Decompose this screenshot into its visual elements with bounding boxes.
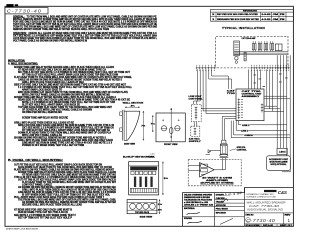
- width dimension: [125, 107, 140, 108]
- wires control unit to conduit: [222, 116, 236, 140]
- svg-text:ASSEMBLY: ASSEMBLY: [242, 95, 261, 98]
- svg-text:SUPPLY: SUPPLY: [189, 141, 202, 143]
- remote control station (optional): [267, 156, 291, 171]
- svg-text:DWG NO: DWG NO: [246, 214, 255, 216]
- wire tag labels: [254, 74, 257, 77]
- file stamp bars top-left: [6, 4, 13, 7]
- svg-text:SCALE NONE: SCALE NONE: [246, 224, 261, 227]
- svg-text:ON DWG PER INSTALL REMOVE MO: ON DWG PER INSTALL REMOVE MO: [22, 111, 62, 114]
- svg-text:CAT 7230-40 AMP: CAT 7230-40 AMP: [242, 37, 257, 40]
- input network R4: [201, 169, 208, 172]
- svg-text:PROJ ENGR: PROJ ENGR: [216, 209, 229, 211]
- op-amp U1: [200, 163, 215, 177]
- wire loop COMMON: [234, 121, 290, 135]
- wires control unit to riser: [264, 105, 277, 107]
- relay bank K1-K6: [252, 43, 254, 50]
- mounting frame front view: [129, 162, 159, 195]
- svg-text:POWER IS OFF WHEN DONE TEST FU: POWER IS OFF WHEN DONE TEST FULL SET UP …: [22, 145, 84, 147]
- wall lines: [121, 110, 123, 141]
- svg-text:4-2-82: 4-2-82: [262, 18, 272, 21]
- mounting frame bottom view: [127, 200, 157, 214]
- wires between panels: [193, 122, 195, 127]
- svg-text:DATE 6-4-81: DATE 6-4-81: [263, 224, 273, 227]
- 120 VAC supply panel (dashed): [191, 126, 200, 136]
- resistor R1: [244, 52, 246, 61]
- drawing number box C-7730-40: [5, 8, 48, 14]
- svg-text:CAT. 7730-40: CAT. 7730-40: [249, 204, 280, 208]
- svg-text:SHEET 1 OF 1: SHEET 1 OF 1: [280, 225, 292, 227]
- dashed cabinet bottom edge: [217, 67, 250, 69]
- height dimension: [143, 111, 144, 140]
- svg-text:MATERIAL: MATERIAL: [184, 207, 196, 210]
- riser wires to J-box: [276, 55, 278, 148]
- alignment cross left: [162, 119, 164, 121]
- input network R3: [201, 164, 208, 167]
- output wires to attenuator: [214, 158, 225, 170]
- svg-text:APART SNAP LOCK BACK EDGE: APART SNAP LOCK BACK EDGE: [6, 228, 39, 231]
- svg-text:6-9-83: 6-9-83: [262, 14, 272, 16]
- svg-text:JM: JM: [273, 14, 279, 16]
- svg-text:LINE 1: LINE 1: [241, 131, 249, 133]
- front view height dimension: [152, 115, 153, 132]
- svg-text:FRONT VIEW: FRONT VIEW: [164, 144, 178, 146]
- svg-text:5¾: 5¾: [164, 177, 168, 180]
- speaker housing profile: [124, 111, 140, 140]
- potentiometer R2: [210, 150, 220, 152]
- svg-text:COMMON: COMMON: [244, 135, 253, 137]
- junction box J1: [277, 148, 287, 154]
- svg-text:TOP END FACE: TOP END FACE: [135, 211, 150, 214]
- terminal strip TB1: [196, 67, 217, 69]
- screw hole left: [161, 126, 166, 131]
- svg-text:SIDE VIEW: SIDE VIEW: [140, 217, 153, 219]
- svg-text:VOLT PANEL CABLE AS SHOWN ON D: VOLT PANEL CABLE AS SHOWN ON DWG PER INS…: [13, 39, 87, 42]
- svg-text:CONTROL: CONTROL: [237, 149, 248, 151]
- field wires to low volt panel: [194, 69, 198, 104]
- screw hole right: [175, 126, 180, 131]
- svg-text:REMOVE MOUNT SCREW TONE AMP RE: REMOVE MOUNT SCREW TONE AMP RELAY NOTED …: [13, 28, 109, 31]
- svg-text:APPROVED: APPROVED: [216, 204, 227, 207]
- svg-text:FINISH: FINISH: [184, 218, 193, 220]
- svg-text:CHECKED: CHECKED: [216, 198, 226, 200]
- svg-text:NOTE) OPTIONAL: NOTE) OPTIONAL: [271, 163, 288, 166]
- svg-text:TRACED: TRACED: [216, 200, 225, 203]
- svg-text:SECURE GRILL INTO PLACE THEN C: SECURE GRILL INTO PLACE THEN CHECK ALL L…: [22, 204, 82, 207]
- wires TB2 to control unit: [248, 69, 250, 89]
- terminal strip TB2: [251, 67, 291, 69]
- svg-text:C&S: C&S: [278, 190, 288, 195]
- mounting tab lower: [120, 128, 123, 132]
- svg-text:SCREW TONE AMP RELAY NOTED SEC: SCREW TONE AMP RELAY NOTED SECURE: [22, 116, 68, 119]
- alignment cross right: [178, 119, 180, 121]
- svg-text:1-3/4: 1-3/4: [150, 154, 155, 156]
- revision history table: [211, 9, 294, 21]
- svg-text:REV PER ECN 2491 DWG RELOCATED: REV PER ECN 2491 DWG RELOCATED: [217, 13, 259, 16]
- svg-text:BLOW-UP VIEW MOUNTING: BLOW-UP VIEW MOUNTING: [123, 156, 154, 158]
- svg-text:SIDE VIEW: SIDE VIEW: [124, 143, 135, 145]
- mounting tab upper: [120, 112, 123, 116]
- svg-text:NORWALK CONNECTICUT USA: NORWALK CONNECTICUT USA: [247, 196, 277, 199]
- svg-text:J-BOX: J-BOX: [279, 151, 286, 153]
- svg-text:WALL SECTION: WALL SECTION: [123, 102, 144, 105]
- wire loop LINE 2: [239, 121, 287, 125]
- svg-text:REVISIONS: REVISIONS: [243, 10, 258, 12]
- svg-text:EDWARDS COMPANY INC.: EDWARDS COMPANY INC.: [247, 193, 276, 196]
- internal bus wiring: [234, 51, 288, 53]
- svg-text:TYPICAL INSTALLATION: TYPICAL INSTALLATION: [222, 26, 265, 30]
- wire loop LINE 1: [236, 121, 287, 131]
- speaker attenuator: [222, 140, 226, 143]
- svg-text:4¾: 4¾: [131, 104, 135, 107]
- svg-text:1¾: 1¾: [158, 203, 163, 206]
- power supply module PS1: [275, 44, 282, 51]
- svg-text:JM: JM: [273, 19, 279, 21]
- svg-text:CONT PANEL: CONT PANEL: [189, 98, 204, 101]
- wire loop shield: [231, 121, 290, 138]
- bottom view dimension: [159, 200, 160, 214]
- transformer T1: [234, 41, 240, 56]
- frame height dimension: [162, 162, 163, 195]
- title block frame: [183, 188, 294, 227]
- svg-text:AUDIO/VISUAL SIGNALING: AUDIO/VISUAL SIGNALING: [246, 209, 283, 212]
- svg-text:SET UP TRIM OUT FIT TAB SLOT K: SET UP TRIM OUT FIT TAB SLOT KEY HOLE P: [18, 216, 72, 219]
- amplifier enclosure (dashed, by others): [188, 160, 241, 186]
- svg-text:C-7730-40: C-7730-40: [7, 9, 42, 14]
- fuse F2: [235, 61, 238, 64]
- svg-text:MFG ENGR: MFG ENGR: [216, 212, 227, 214]
- wires TB2 down right of control unit: [266, 69, 268, 106]
- svg-text:LINE 2: LINE 2: [242, 125, 251, 127]
- wall plate front view: [156, 113, 185, 142]
- amp cabinet enclosure (dashed): [216, 36, 288, 66]
- fuse F1: [235, 57, 238, 60]
- signature column: [215, 199, 245, 201]
- vertical centerline: [171, 108, 172, 142]
- svg-text:RUN IN SAME TYPE CAT NO 7730 A: RUN IN SAME TYPE CAT NO 7730 A 40 CK: [18, 211, 68, 214]
- control unit CAT 7730: [236, 89, 264, 121]
- svg-text:REDRAWN PER ECN 2105 REV NOTED: REDRAWN PER ECN 2105 REV NOTED: [217, 18, 260, 21]
- center slot: [169, 127, 173, 133]
- svg-text:C-7730-40: C-7730-40: [246, 218, 275, 223]
- svg-text:ANGLES ± 1° FINISH 125: ANGLES ± 1° FINISH 125: [184, 203, 213, 206]
